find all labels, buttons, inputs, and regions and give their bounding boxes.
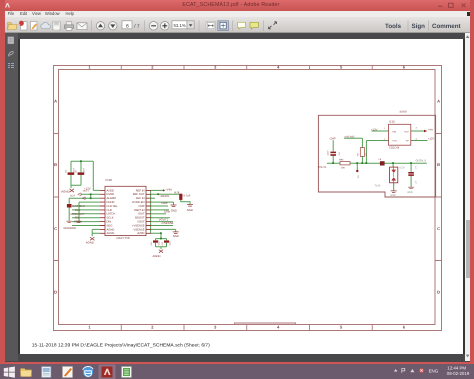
svg-text:C: C: [437, 226, 440, 231]
svg-text:GND: GND: [171, 209, 177, 213]
svg-text:SDO: SDO: [74, 220, 81, 224]
svg-text:R81: R81: [357, 153, 360, 156]
svg-text:ENG: ENG: [429, 368, 439, 373]
svg-text:D: D: [437, 290, 440, 295]
svg-text:SGND: SGND: [400, 111, 407, 114]
svg-text:100: 100: [365, 153, 368, 156]
svg-text:L9: L9: [379, 158, 382, 161]
svg-text:C57: C57: [75, 170, 78, 173]
svg-text:3: 3: [214, 325, 217, 330]
svg-text:AGND: AGND: [61, 190, 69, 194]
svg-text:6: 6: [403, 325, 406, 330]
svg-text:190: 190: [341, 167, 346, 170]
svg-text:+12V: +12V: [428, 137, 435, 140]
svg-text:SCLK: SCLK: [107, 217, 114, 220]
svg-text:+VIN: +VIN: [165, 187, 171, 191]
svg-text:100nF: 100nF: [158, 240, 161, 246]
svg-text:100nF: 100nF: [169, 240, 172, 246]
svg-text:CLR SEL: CLR SEL: [107, 205, 119, 208]
svg-text:3: 3: [416, 127, 418, 130]
svg-text:12:44 PM: 12:44 PM: [447, 366, 466, 371]
svg-text:B: B: [54, 162, 57, 167]
svg-text:IC20: IC20: [400, 167, 406, 170]
svg-text:BOOST: BOOST: [135, 217, 145, 220]
svg-text:53.1%: 53.1%: [174, 23, 186, 28]
svg-text:TP1: TP1: [357, 175, 360, 178]
svg-text:/ 7: / 7: [134, 24, 140, 30]
svg-text:DIN: DIN: [107, 221, 112, 224]
svg-text:GND: GND: [407, 191, 413, 194]
svg-text:CMP: CMP: [139, 205, 145, 208]
svg-text:AGND: AGND: [107, 232, 115, 235]
svg-text:T15A: T15A: [375, 185, 381, 188]
svg-text:OUTA_S: OUTA_S: [416, 159, 427, 162]
svg-text:AGND: AGND: [107, 228, 115, 231]
svg-text:15-11-2018 12:39 PM D:\EAGLE: 15-11-2018 12:39 PM D:\EAGLE Projects\Vi…: [32, 343, 210, 348]
svg-text:VOUT1: VOUT1: [318, 166, 327, 169]
svg-text:D: D: [54, 290, 57, 295]
svg-text:LATCH: LATCH: [107, 213, 116, 216]
svg-text:AGND: AGND: [153, 254, 161, 258]
svg-text:GND: GND: [173, 234, 179, 238]
svg-text:4: 4: [277, 325, 280, 330]
svg-text:OUT1: OUT1: [83, 189, 90, 192]
svg-text:R94: R94: [339, 159, 344, 162]
svg-text:IOUT: IOUT: [138, 213, 145, 216]
svg-text:VO3: VO3: [392, 139, 397, 142]
svg-text:C75: C75: [415, 166, 418, 169]
svg-text:AVDD: AVDD: [137, 232, 144, 235]
svg-text:+12V: +12V: [371, 128, 378, 131]
svg-text:DGND: DGND: [107, 201, 115, 204]
svg-text:1: 1: [384, 127, 386, 130]
svg-text:Sign: Sign: [412, 23, 426, 30]
svg-text:+VSENSE: +VSENSE: [132, 224, 145, 227]
svg-text:C58: C58: [150, 242, 153, 245]
svg-text:GND: GND: [187, 208, 193, 212]
svg-text:IC18: IC18: [106, 178, 113, 182]
svg-text:DAC7750: DAC7750: [117, 236, 130, 240]
svg-text:A: A: [54, 98, 57, 103]
svg-text:REF IN: REF IN: [136, 189, 145, 192]
svg-text:2: 2: [151, 325, 154, 330]
svg-text:SDO: SDO: [107, 224, 113, 227]
svg-text:08-02-2019: 08-02-2019: [447, 371, 470, 376]
svg-text:+REFIN: +REFIN: [159, 194, 169, 198]
svg-text:CLR: CLR: [107, 209, 112, 212]
svg-text:5: 5: [340, 325, 343, 330]
svg-text:C: C: [54, 226, 57, 231]
svg-text:AGND: AGND: [86, 241, 94, 245]
svg-text:DVDD: DVDD: [107, 193, 115, 196]
svg-text:CMP: CMP: [161, 201, 167, 205]
svg-text:-VSENSE: -VSENSE: [133, 228, 145, 231]
svg-text:Tools: Tools: [385, 23, 402, 30]
svg-text:GND: GND: [390, 194, 396, 197]
svg-text:A: A: [437, 98, 440, 103]
svg-text:OUT: OUT: [70, 195, 75, 198]
svg-text:REF OUT: REF OUT: [133, 193, 145, 196]
svg-text:BLF IN: BLF IN: [136, 197, 144, 200]
svg-text:CD1C04: CD1C04: [389, 147, 400, 150]
svg-text:100n: 100n: [164, 209, 171, 213]
svg-text:C56: C56: [65, 170, 68, 173]
svg-text:VOUT: VOUT: [137, 221, 145, 224]
svg-text:6: 6: [126, 23, 129, 29]
svg-text:100nF: 100nF: [83, 167, 86, 173]
svg-text:B: B: [437, 162, 440, 167]
svg-text:100nF: 100nF: [327, 150, 330, 156]
svg-text:IC19: IC19: [389, 121, 395, 124]
svg-text:AVDD: AVDD: [107, 189, 114, 192]
svg-text:C59: C59: [161, 242, 164, 245]
svg-text:R78: R78: [174, 190, 180, 194]
svg-text:+VSENSE: +VSENSE: [161, 221, 174, 225]
svg-text:ALARM: ALARM: [107, 197, 117, 200]
svg-text:GNDGND: GNDGND: [64, 226, 76, 230]
svg-text:VO2: VO2: [404, 130, 409, 133]
svg-text:4.7uF: 4.7uF: [183, 193, 190, 197]
svg-text:+VSENSE: +VSENSE: [344, 136, 356, 139]
svg-text:1: 1: [88, 325, 91, 330]
svg-text:+VIN: +VIN: [428, 128, 434, 131]
svg-text:CMP: CMP: [330, 137, 336, 140]
svg-text:Comment: Comment: [432, 23, 461, 30]
svg-text:1uF: 1uF: [415, 180, 418, 184]
svg-text:HART-IN: HART-IN: [134, 209, 145, 212]
svg-text:DVDD-EN: DVDD-EN: [132, 201, 144, 204]
svg-text:C34: C34: [338, 152, 341, 155]
svg-text:VIN: VIN: [392, 130, 396, 133]
